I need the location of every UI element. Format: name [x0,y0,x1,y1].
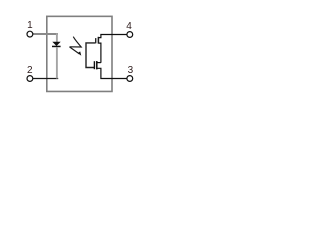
MOSFET Q2 channel bar [96,61,98,69]
pin 3 terminal circle [127,76,133,82]
pin 4 terminal circle [127,32,133,38]
MOSFET Q2 drain stub to pin3 rail [97,68,127,78]
LED vertical wire (anode side) [56,33,58,42]
light bolt arrowhead [78,51,82,55]
svg-text:2: 2 [27,65,33,76]
pin 1 terminal circle [27,31,33,37]
MOSFET Q2 gate bar [93,61,95,69]
MOSFET Q1 gate bar [95,38,97,43]
pin 2 terminal circle [27,76,33,82]
MOSFET Q1 channel bar [97,37,99,44]
svg-text:3: 3 [128,65,134,76]
LED vertical wire (cathode side) [56,47,58,78]
background [0,0,157,101]
wire pin2 to LED cathode [33,78,58,80]
wire pin1 to LED anode [33,33,58,35]
MOSFET Q2 source stub to common source [97,62,101,64]
LED cathode bar [52,46,61,48]
MOSFET Q1 drain stub to pin4 rail [98,35,127,38]
light bolt arrow shaft [70,37,82,47]
gate bus wire (U shape joining both gates) [86,43,96,68]
svg-text:1: 1 [27,20,33,31]
svg-text:4: 4 [126,21,132,32]
LED diode triangle [52,42,60,46]
package outline box [47,16,112,91]
MOSFET Q1 source stub to common source [98,43,101,63]
